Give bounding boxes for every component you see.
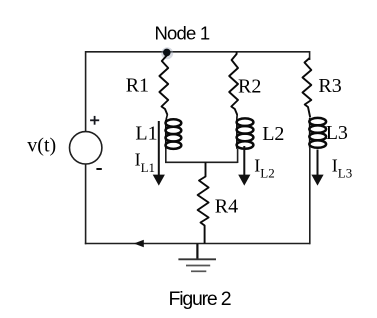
ground bar 1 — [178, 258, 216, 260]
resistor R2 — [229, 52, 238, 115]
minus sign of source — [96, 168, 101, 170]
wire: branch1 coil to middle bus — [165, 149, 167, 164]
svg-text:R2: R2 — [238, 75, 261, 97]
inductor L1 — [166, 115, 182, 149]
node 1 junction dot — [163, 49, 171, 57]
wire: branch3 coil down to bottom bus — [309, 148, 311, 245]
svg-text:R4: R4 — [215, 196, 238, 218]
wire: right vertical top corner lead — [309, 51, 311, 60]
svg-text:Node 1: Node 1 — [155, 22, 210, 43]
svg-text:v(t): v(t) — [27, 134, 56, 156]
current arrow I_L2 — [238, 146, 250, 186]
wire: top bus from source to right branch — [86, 51, 310, 53]
ground stem — [196, 244, 198, 260]
wire: left vertical (top) source to top bus — [85, 51, 87, 132]
wire: branch2 coil to middle bus — [237, 149, 239, 163]
svg-text:L3: L3 — [326, 122, 348, 144]
current arrow I_L1 — [153, 121, 165, 186]
current direction arrowhead on bottom bus — [134, 240, 144, 248]
svg-text:IL2: IL2 — [254, 156, 274, 181]
resistor R3 — [303, 58, 312, 118]
inductor L3 — [309, 118, 326, 148]
svg-text:R1: R1 — [126, 75, 149, 97]
wire: middle bus between branch1 and branch2 — [165, 161, 238, 163]
svg-text:IL1: IL1 — [135, 150, 155, 175]
svg-text:Figure 2: Figure 2 — [169, 288, 231, 310]
node 1 halo — [161, 47, 173, 59]
inductor L2 — [237, 115, 254, 149]
resistor R1 — [159, 55, 168, 115]
wire: left vertical (bottom) source to bottom bus — [85, 164, 87, 244]
ground bar 3 — [191, 270, 206, 272]
svg-text:L1: L1 — [135, 123, 157, 145]
svg-text:R3: R3 — [318, 75, 341, 97]
resistor R4 — [198, 162, 209, 243]
current arrow I_L3 — [311, 150, 323, 186]
voltage source v(t) circle — [70, 132, 102, 164]
ground bar 2 — [186, 265, 210, 267]
svg-text:L2: L2 — [262, 123, 284, 145]
plus sign of source — [90, 116, 99, 125]
wire: bottom bus — [85, 243, 310, 245]
svg-text:IL3: IL3 — [332, 156, 352, 181]
